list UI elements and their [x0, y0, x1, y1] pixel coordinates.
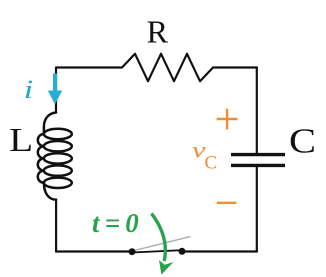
- svg-text:R: R: [147, 14, 169, 50]
- svg-text:t=0: t=0: [92, 208, 144, 238]
- svg-text:L: L: [9, 122, 33, 159]
- svg-text:C: C: [289, 122, 316, 161]
- svg-text:C: C: [205, 153, 218, 174]
- svg-text:i: i: [24, 75, 34, 104]
